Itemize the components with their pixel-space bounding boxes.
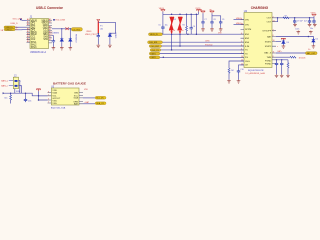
- port pill gauge1: [95, 96, 106, 99]
- stem power flag VIN: [162, 12, 164, 15]
- svg-text:6: 6: [48, 99, 49, 101]
- svg-text:SH4: SH4: [43, 39, 48, 41]
- grounds row B: [297, 31, 301, 34]
- svg-text:9: 9: [241, 52, 242, 54]
- battery connector J2 body: [13, 77, 18, 88]
- svg-text:CHG_PG: CHG_PG: [151, 50, 159, 52]
- capacitor C13: [313, 18, 315, 20]
- wire row5: [160, 53, 244, 55]
- junction row6: [163, 57, 165, 59]
- svg-text:C7: C7: [204, 19, 206, 21]
- svg-text:USB5V: USB5V: [52, 32, 59, 34]
- svg-text:TD: TD: [245, 53, 248, 55]
- J1 right pin stubs: [49, 21, 53, 43]
- J2 wires down: [15, 81, 22, 94]
- ground under D4: [282, 45, 286, 48]
- svg-text:SCL_I2C: SCL_I2C: [96, 98, 104, 100]
- wire CC row: [52, 28, 71, 30]
- svg-text:STAT1: STAT1: [265, 40, 272, 43]
- U3 right pin stubs: [79, 93, 83, 104]
- svg-text:D5: D5: [174, 19, 176, 21]
- wire U3 to pill2: [83, 103, 95, 105]
- svg-text:C9 1uF: C9 1uF: [297, 21, 304, 23]
- svg-text:10: 10: [241, 56, 243, 58]
- svg-text:R7: R7: [285, 15, 287, 17]
- svg-text:OUT: OUT: [267, 22, 272, 24]
- vertical from row1 to row3: [179, 34, 181, 46]
- svg-text:VBUS_IN: VBUS_IN: [150, 34, 158, 36]
- svg-text:C9: C9: [222, 19, 224, 21]
- svg-text:BIN: BIN: [74, 92, 78, 94]
- wires to grounds: [53, 42, 70, 46]
- U3 internal names right: [73, 92, 78, 105]
- wire D3 to ground: [109, 38, 111, 45]
- U2 bottom right wires: [276, 60, 288, 63]
- ground under C2: [97, 44, 101, 47]
- capacitor C7: [201, 20, 204, 24]
- port D+: [4, 26, 15, 29]
- svg-text:CC2: CC2: [31, 39, 36, 41]
- svg-text:STAT1: STAT1: [150, 52, 155, 55]
- port pill gauge2: [95, 102, 106, 105]
- led D2: [312, 38, 315, 43]
- power flag gauge: [36, 89, 40, 91]
- net arrow left: [3, 92, 5, 94]
- svg-text:STAT2: STAT2: [265, 45, 272, 48]
- ground under D2: [69, 47, 73, 50]
- gauge U3 body: [51, 88, 79, 105]
- gauge rail A: [5, 93, 48, 96]
- connector J1 body: [30, 19, 49, 49]
- capacitor C12: [309, 18, 311, 20]
- svg-text:SDA: SDA: [74, 97, 79, 100]
- svg-text:D4: D4: [287, 42, 289, 44]
- svg-text:VBUS_PROT: VBUS_PROT: [85, 34, 98, 36]
- svg-text:BAT_S: BAT_S: [264, 51, 271, 54]
- svg-text:1: 1: [241, 18, 242, 20]
- svg-text:USB_D-: USB_D-: [6, 29, 13, 31]
- vertical from row1 to row4: [171, 34, 173, 50]
- power flag VIN: [161, 10, 165, 12]
- svg-text:USB-C Connector: USB-C Connector: [36, 6, 64, 10]
- fuse F3 red: [178, 17, 182, 34]
- svg-text:5: 5: [48, 102, 49, 104]
- capacitor C9: [219, 20, 222, 24]
- svg-text:PGND: PGND: [265, 64, 272, 66]
- wire R4 down: [229, 73, 239, 79]
- svg-text:VIN: VIN: [218, 33, 222, 35]
- svg-text:5V0_USB: 5V0_USB: [55, 20, 65, 22]
- resistor R7: [283, 17, 289, 19]
- wires to grounds: [277, 66, 289, 74]
- svg-text:10u: 10u: [310, 28, 313, 30]
- fuse F1 red bar: [97, 21, 99, 34]
- svg-text:11: 11: [273, 51, 275, 53]
- svg-text:C6: C6: [193, 26, 195, 28]
- junctions VSYS row: [294, 17, 296, 19]
- svg-text:DO_ADDRESS_0x6B: DO_ADDRESS_0x6B: [245, 72, 265, 75]
- ground under D3: [108, 44, 112, 47]
- wire BAT row: [276, 37, 313, 40]
- zener D3: [108, 33, 111, 38]
- wires caps to gnd: [203, 25, 221, 28]
- power arrow VBUS over fuse: [97, 19, 100, 21]
- capacitor C1: [52, 39, 55, 43]
- svg-text:VIN: VIN: [245, 19, 249, 21]
- svg-text:SDA: SDA: [52, 92, 57, 95]
- svg-text:VBUS: VBUS: [159, 8, 165, 10]
- ground under R9: [286, 74, 290, 77]
- power flag VSYS deco: [210, 11, 214, 13]
- U3 left pin numbers: [48, 91, 49, 103]
- svg-text:CE: CE: [245, 65, 249, 67]
- U2 right pin stubs: [272, 18, 276, 64]
- junction dots on rail: [171, 14, 173, 16]
- svg-text:8: 8: [273, 35, 274, 37]
- svg-text:14: 14: [241, 23, 243, 25]
- capacitor C16: [25, 93, 27, 98]
- junction fuse bottom: [98, 33, 100, 35]
- U2 bottom-left wires: [229, 61, 244, 69]
- port BAT pill: [306, 49, 318, 55]
- U2 internal pin names right: [262, 18, 272, 66]
- svg-text:CC_5V1: CC_5V1: [72, 30, 80, 32]
- U2 left pin stubs: [241, 20, 245, 65]
- wire cap branch: [52, 29, 70, 40]
- svg-text:C16: C16: [28, 100, 31, 102]
- svg-text:BQ24075RGTR: BQ24075RGTR: [248, 70, 264, 72]
- J2 pin square 1: [15, 80, 18, 82]
- ground under C1: [52, 47, 56, 50]
- wire row6: [160, 56, 244, 58]
- input power rail: [163, 13, 199, 15]
- svg-text:BQ27441-G1A: BQ27441-G1A: [51, 107, 66, 110]
- charger input wire row1: [162, 33, 244, 35]
- wire TMR row: [276, 56, 290, 58]
- junction row1: [171, 33, 173, 35]
- svg-text:8: 8: [48, 91, 49, 93]
- resistor R4: [228, 68, 230, 73]
- capacitor C8: [210, 20, 213, 24]
- J2 label stubs: [9, 81, 14, 86]
- svg-text:D-: D-: [16, 29, 19, 31]
- svg-text:CHG_EN1: CHG_EN1: [149, 42, 158, 44]
- stem power flag gauge: [39, 91, 48, 100]
- svg-text:VDD: VDD: [84, 89, 89, 91]
- port pill row5: [149, 52, 160, 55]
- svg-text:5: 5: [241, 41, 242, 43]
- resistor R2: [186, 26, 188, 31]
- svg-text:7: 7: [48, 95, 49, 97]
- U3 internal names left: [52, 90, 60, 105]
- J1 left pin numbers: [27, 18, 30, 43]
- svg-text:PESD5V2: PESD5V2: [75, 34, 77, 43]
- junction dots rail A: [10, 92, 12, 94]
- port IN pill row1: [149, 33, 163, 36]
- wire VSYS row: [276, 18, 314, 22]
- grounds under deco caps: [201, 28, 205, 31]
- svg-text:SYSOFF: SYSOFF: [262, 31, 271, 33]
- svg-text:16: 16: [273, 40, 275, 42]
- svg-text:PGND: PGND: [265, 61, 272, 63]
- svg-text:BAT(-): BAT(-): [1, 85, 8, 88]
- junction dots CC row: [61, 28, 62, 29]
- capacitor C10: [237, 69, 240, 73]
- svg-text:SDA_I2C: SDA_I2C: [96, 102, 105, 105]
- port pill USB row: [71, 28, 82, 32]
- svg-text:6: 6: [241, 45, 242, 47]
- ground under C15: [280, 74, 284, 77]
- svg-text:BATTERY GAS GAUGE: BATTERY GAS GAUGE: [53, 81, 86, 85]
- port pill row2: [148, 41, 163, 44]
- svg-text:x: x: [277, 46, 278, 48]
- capacitor C6: [190, 14, 192, 26]
- charger U2 body: [244, 13, 272, 68]
- svg-text:1K1206: 1K1206: [299, 57, 307, 59]
- svg-text:R4: R4: [231, 70, 233, 72]
- svg-text:C5: C5: [158, 25, 160, 27]
- ground under D2: [312, 45, 316, 48]
- sheet background: [0, 0, 320, 115]
- svg-text:USB4105-GF-A: USB4105-GF-A: [30, 51, 47, 54]
- svg-text:x: x: [273, 31, 274, 33]
- svg-text:BAT: BAT: [267, 35, 272, 38]
- wire STAT row: [276, 41, 281, 43]
- capacitor C5: [161, 25, 164, 29]
- port pill row6: [149, 56, 160, 59]
- capacitor C11: [294, 18, 296, 20]
- svg-text:C10: C10: [240, 69, 243, 71]
- fuse F2 red: [169, 17, 173, 34]
- svg-text:13: 13: [273, 20, 275, 22]
- wire U2 pin2: [234, 24, 245, 26]
- svg-text:4u7: 4u7: [304, 21, 307, 23]
- svg-text:BAT_OUT: BAT_OUT: [307, 52, 316, 55]
- svg-text:VIN: VIN: [245, 24, 249, 26]
- J1 right pin numbers: [49, 18, 53, 41]
- J1 internal pin names left column: [31, 20, 38, 48]
- svg-text:CHG: CHG: [245, 61, 250, 63]
- capacitor C14: [275, 62, 278, 66]
- deco wire jog: [203, 13, 221, 20]
- svg-text:USB_D: USB_D: [10, 23, 18, 25]
- svg-text:VSS: VSS: [52, 103, 57, 105]
- svg-text:OUT: OUT: [267, 18, 272, 20]
- svg-text:D2: D2: [316, 38, 318, 40]
- svg-text:2: 2: [273, 17, 274, 19]
- no-erc marker: [20, 19, 22, 21]
- ground under R4: [227, 80, 231, 83]
- wire fuse top to diode branch: [98, 23, 115, 34]
- ground under D1: [60, 47, 64, 50]
- port D-: [4, 28, 15, 31]
- svg-text:CHG_EN2: CHG_EN2: [150, 46, 159, 48]
- tvs diode D2: [69, 37, 72, 42]
- svg-text:U2: U2: [244, 9, 248, 13]
- ground under C14: [275, 74, 279, 77]
- port pill row3: [149, 45, 161, 48]
- grounds under C11-C13: [293, 23, 297, 26]
- svg-text:100n: 100n: [295, 28, 299, 30]
- wire BAT+ row: [276, 52, 306, 54]
- no-erc cross red: [65, 27, 69, 30]
- svg-text:TMR: TMR: [266, 57, 271, 59]
- svg-text:STAT2: STAT2: [150, 56, 155, 59]
- svg-text:B+: B+: [308, 49, 310, 51]
- J1 internal pin names right column: [42, 20, 49, 40]
- no-erc marker VBUS pin: [53, 19, 55, 21]
- tvs diode D1: [60, 37, 63, 42]
- U2 left pin numbers: [241, 18, 243, 65]
- svg-text:I2C: I2C: [4, 98, 8, 100]
- wire row2: [162, 41, 244, 43]
- resistor R8: [290, 56, 296, 58]
- wire D- to pin: [15, 29, 26, 31]
- wire to pin A4: [22, 19, 27, 21]
- svg-text:10u: 10u: [165, 25, 168, 27]
- svg-text:F1: F1: [100, 26, 102, 28]
- power flag right VBUS_PROT: [196, 10, 200, 12]
- svg-text:ILIM: ILIM: [245, 46, 249, 48]
- svg-text:R2: R2: [183, 24, 185, 26]
- power flag over LED D4: [281, 38, 285, 40]
- resistor R9: [287, 63, 289, 68]
- capacitor C2: [97, 34, 100, 38]
- svg-text:SHL3: SHL3: [31, 47, 37, 49]
- svg-text:CHARGING: CHARGING: [251, 6, 269, 10]
- wire U2 pin1: [234, 19, 245, 21]
- J2 pin square 2: [15, 85, 18, 87]
- port pill row4: [150, 49, 161, 52]
- input cap C5 branch: [162, 14, 164, 25]
- J1 left pin stubs: [27, 21, 31, 43]
- ground under C10: [237, 80, 241, 83]
- power flag VSYS: [312, 14, 316, 16]
- power flag VBUS deco: [201, 11, 205, 13]
- U3 left pin stubs: [48, 93, 52, 103]
- U2 right pin numbers: [273, 17, 275, 58]
- svg-text:VBUS: VBUS: [86, 31, 92, 33]
- svg-text:C8: C8: [213, 19, 215, 21]
- resistor R2 branch: [186, 14, 188, 26]
- wire D+ to pin: [15, 26, 26, 28]
- svg-text:DPPM: DPPM: [245, 29, 251, 31]
- svg-text:4: 4: [241, 33, 242, 35]
- rail right drop: [195, 14, 197, 34]
- svg-text:BAT(+): BAT(+): [1, 80, 8, 83]
- resistor R10: [10, 93, 12, 95]
- U2 internal pin names left: [245, 19, 251, 66]
- svg-text:VSYS: VSYS: [311, 12, 317, 14]
- svg-text:SMBJ5: SMBJ5: [114, 33, 116, 39]
- svg-text:BAT: BAT: [74, 103, 79, 106]
- wire C2 to ground: [97, 38, 99, 44]
- svg-text:8: 8: [273, 56, 274, 58]
- svg-text:3: 3: [241, 49, 242, 51]
- wire U3 to pill1: [83, 97, 95, 99]
- capacitor C15: [280, 62, 283, 66]
- wire row3: [162, 45, 245, 47]
- wire row4: [161, 49, 244, 51]
- svg-text:PG: PG: [245, 57, 248, 59]
- wire fuse bottom down: [97, 33, 99, 34]
- led D4: [282, 40, 285, 45]
